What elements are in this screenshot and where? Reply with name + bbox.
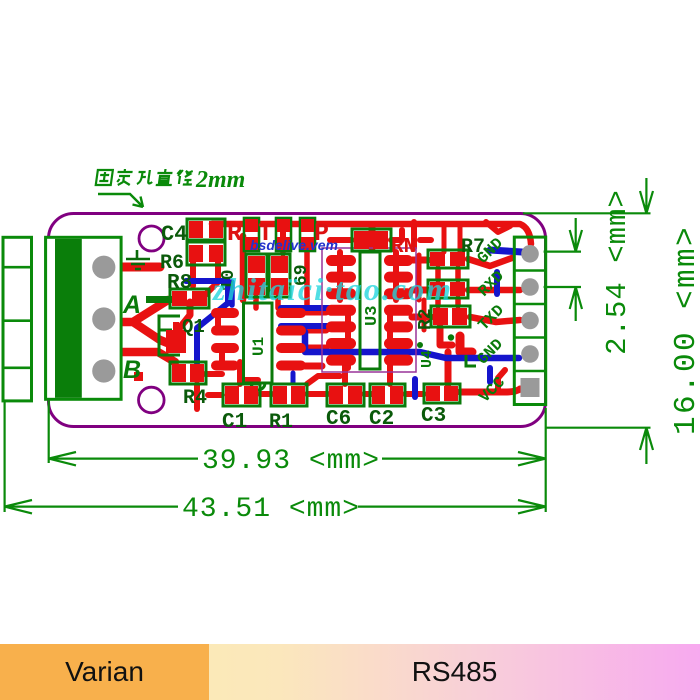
top pad pair T3 xyxy=(300,218,315,251)
title CJK char 直 xyxy=(156,169,174,185)
wire: R2 to header pin3 xyxy=(470,317,520,322)
wire: A pin fork xyxy=(104,300,170,344)
dim 43.51 arrows xyxy=(5,500,546,513)
terminal block J1 outer body xyxy=(3,237,32,401)
U3 right pad column xyxy=(384,255,413,366)
wire: C2-C3 link xyxy=(390,360,424,394)
svg-text:C6: C6 xyxy=(326,408,351,431)
transistor Q1 body fill xyxy=(166,330,186,353)
dim 16.00 top extension xyxy=(523,212,651,214)
op-amp U1 outline xyxy=(244,303,273,383)
blue wire: under U1 to U3 xyxy=(281,308,330,326)
wire: terminal pin1 to ground symbol xyxy=(104,263,160,272)
svg-text:R1: R1 xyxy=(269,411,293,434)
blue wire: R8 to via run xyxy=(186,281,228,363)
blue wire: R4 top stub xyxy=(195,360,200,372)
dim 2.54 bottom arrow xyxy=(570,287,582,321)
wire: bus drop at x283 xyxy=(280,226,286,244)
svg-text:2.54 <mm>: 2.54 <mm> xyxy=(601,189,634,355)
title arrow xyxy=(98,194,143,207)
transistor Q1 outline xyxy=(159,316,180,355)
title CJK char 孔 xyxy=(137,170,154,184)
chip U3 courtyard xyxy=(322,248,416,372)
blue wire: stub above R1 xyxy=(291,373,296,383)
wire: top right pads to bus xyxy=(444,226,460,252)
svg-text:A: A xyxy=(122,291,141,319)
blue wire: long gnd run to pin4 xyxy=(305,332,519,358)
dim 16.00 top arrow xyxy=(640,178,653,213)
svg-text:C1: C1 xyxy=(222,411,247,434)
pin header P1 cell dividers xyxy=(514,271,545,372)
pin header P1 outline xyxy=(514,237,545,404)
top pad pair T1 xyxy=(244,218,259,251)
wire: R8 right pad up to C4 xyxy=(205,262,218,295)
dim 43.51 line xyxy=(5,506,546,508)
dim 43.51 extension line xyxy=(3,402,5,512)
resistor R5 pads xyxy=(428,280,468,298)
top pad pair T2 xyxy=(276,218,291,251)
red block mid-right xyxy=(460,336,472,352)
dim 39.93 arrows xyxy=(49,452,546,465)
U1 right pad row xyxy=(276,308,306,371)
capacitor C6 pads xyxy=(327,384,364,406)
header pin 3 TXD xyxy=(521,312,539,330)
svg-text:VCC: VCC xyxy=(476,373,509,406)
svg-text:C2: C2 xyxy=(369,408,394,431)
wire: bottom bus C1-R1 xyxy=(240,362,272,394)
wire: R5 to header pin2 xyxy=(468,287,520,294)
wire: C9/C10 pads down xyxy=(256,244,307,308)
terminal block J1 middle column xyxy=(32,237,46,401)
svg-text:R2: R2 xyxy=(416,308,436,330)
title CJK char 定 xyxy=(116,169,133,185)
svg-text:U4: U4 xyxy=(419,350,436,368)
resistor R2 pads xyxy=(431,306,470,327)
ground symbol near terminal pin 1 xyxy=(126,250,150,269)
resistor R8 pads xyxy=(170,289,209,308)
silk dot mid-right xyxy=(448,334,454,340)
resistor R4 pads xyxy=(170,362,206,384)
capacitor C4 pads (two stacked pairs) xyxy=(187,219,225,265)
mounting hole bottom-left xyxy=(139,387,165,413)
svg-text:R4: R4 xyxy=(183,387,207,410)
wire: bus drop to RN xyxy=(369,226,376,248)
wire: Q1 to R8 pads xyxy=(178,302,190,330)
terminal block J1 main body xyxy=(46,237,122,399)
svg-text:C3: C3 xyxy=(421,405,446,428)
via near A/B xyxy=(134,372,143,381)
U3 left pad column xyxy=(326,255,356,366)
header pin 2 RXD xyxy=(521,278,539,296)
chip U3 body outline xyxy=(360,252,380,369)
capacitor C2 pads xyxy=(370,384,405,406)
U1 notch xyxy=(251,383,265,390)
wire: U3 right col vertical xyxy=(390,252,396,368)
wire: U3 right pads to R7 xyxy=(412,260,431,317)
dim 2.54 extension lines xyxy=(544,252,581,287)
wire: C6-C2 link xyxy=(345,356,372,394)
svg-text:2mm: 2mm xyxy=(195,167,245,193)
title CJK char 固 xyxy=(96,170,113,185)
resistor R7 pads xyxy=(428,250,468,268)
wire: top power bus xyxy=(212,224,531,244)
svg-text:Q1: Q1 xyxy=(182,316,205,338)
wire: RN to top pads xyxy=(330,222,431,248)
wire: C4 right pad down to U1 xyxy=(240,236,247,300)
U1 left pad row xyxy=(211,308,239,371)
terminal pin 1 (gnd) xyxy=(92,256,115,279)
silk L-bracket mid-right xyxy=(466,355,476,366)
svg-text:GND: GND xyxy=(474,335,507,368)
header pin 4 GND xyxy=(521,345,539,363)
board outline xyxy=(49,214,546,427)
capacitor C9 pads (vertical) xyxy=(269,254,290,297)
dim 39.93 line xyxy=(49,458,546,460)
wire: C4 left pad down xyxy=(190,260,196,286)
silk bar left of R8 xyxy=(146,296,180,303)
capacitor C1 pads xyxy=(223,384,260,406)
silk dot below R2 xyxy=(417,342,423,348)
capacitor C10 pads (vertical) xyxy=(246,254,267,297)
wire: U1-U3 mid links xyxy=(305,312,326,366)
terminal block J1 cell dividers xyxy=(3,267,32,368)
Q1 red lead xyxy=(173,322,179,333)
svg-text:R: R xyxy=(227,219,242,248)
blue wire: stub between C2 and C3 xyxy=(412,379,418,397)
dim 16.00 bottom arrow xyxy=(640,428,653,464)
capacitor C3 pads xyxy=(424,384,460,403)
svg-text:43.51 <mm>: 43.51 <mm> xyxy=(182,494,360,525)
svg-text:RN: RN xyxy=(391,236,416,259)
wire: C3 to VCC pin xyxy=(460,389,520,392)
terminal pin 3 (B) xyxy=(92,359,115,382)
dim 16.00 bottom extension xyxy=(546,427,651,429)
terminal block J1 green bar fill xyxy=(55,239,82,398)
wire: R2 pads down xyxy=(440,327,452,345)
svg-text:U1: U1 xyxy=(250,337,268,356)
mounting hole top-left xyxy=(139,226,164,251)
blue wire: R10 drop xyxy=(229,282,235,305)
wire: R column vertical links xyxy=(438,268,458,306)
title CJK char 径 xyxy=(176,170,194,185)
svg-text:R8: R8 xyxy=(167,272,192,295)
blue wire: header pin1 stub xyxy=(490,250,522,252)
wire: R7 to header pin1 xyxy=(468,258,512,266)
resistor R1 pads xyxy=(271,384,307,406)
svg-text:B: B xyxy=(123,356,141,384)
blue wire: vcc vertical xyxy=(487,368,493,382)
header pin 1 GND xyxy=(521,245,539,263)
svg-text:C4: C4 xyxy=(161,222,187,247)
wire: U1 left pads vertical joins xyxy=(218,312,222,366)
svg-text:TXD: TXD xyxy=(475,301,508,334)
svg-text:RXD: RXD xyxy=(475,267,508,300)
wire: R1-C6 link xyxy=(307,376,340,394)
terminal pin 2 (A) xyxy=(92,307,115,330)
wire: R4 to C1 row link xyxy=(205,374,222,395)
blue wire: rxd vertical xyxy=(494,272,500,294)
svg-text:U3: U3 xyxy=(363,306,382,326)
resistor network RN pads xyxy=(352,229,391,251)
dim 2.54 top arrow xyxy=(570,218,582,252)
wire: R4 right pad down xyxy=(194,384,200,409)
svg-text:16.00 <mm>: 16.00 <mm> xyxy=(669,225,700,435)
wire: B pin to Q1/R4 xyxy=(104,352,175,371)
header pin 5 VCC square pad xyxy=(521,378,540,397)
svg-text:zhitaïci·tao.com: zhitaïci·tao.com xyxy=(212,271,453,307)
svg-text:bsdelive.vem: bsdelive.vem xyxy=(250,237,338,253)
wire: VCC elbow up xyxy=(498,370,505,392)
wire: U3 left col vertical xyxy=(340,252,348,368)
svg-text:39.93 <mm>: 39.93 <mm> xyxy=(202,446,380,477)
wire: top-left corner jog xyxy=(486,222,510,232)
wire: red verticals right of U3 xyxy=(419,255,424,330)
right shared extension line xyxy=(545,408,547,512)
wire: mid-right down to C3 xyxy=(445,352,452,384)
dim 39.93 extension line xyxy=(48,401,50,463)
